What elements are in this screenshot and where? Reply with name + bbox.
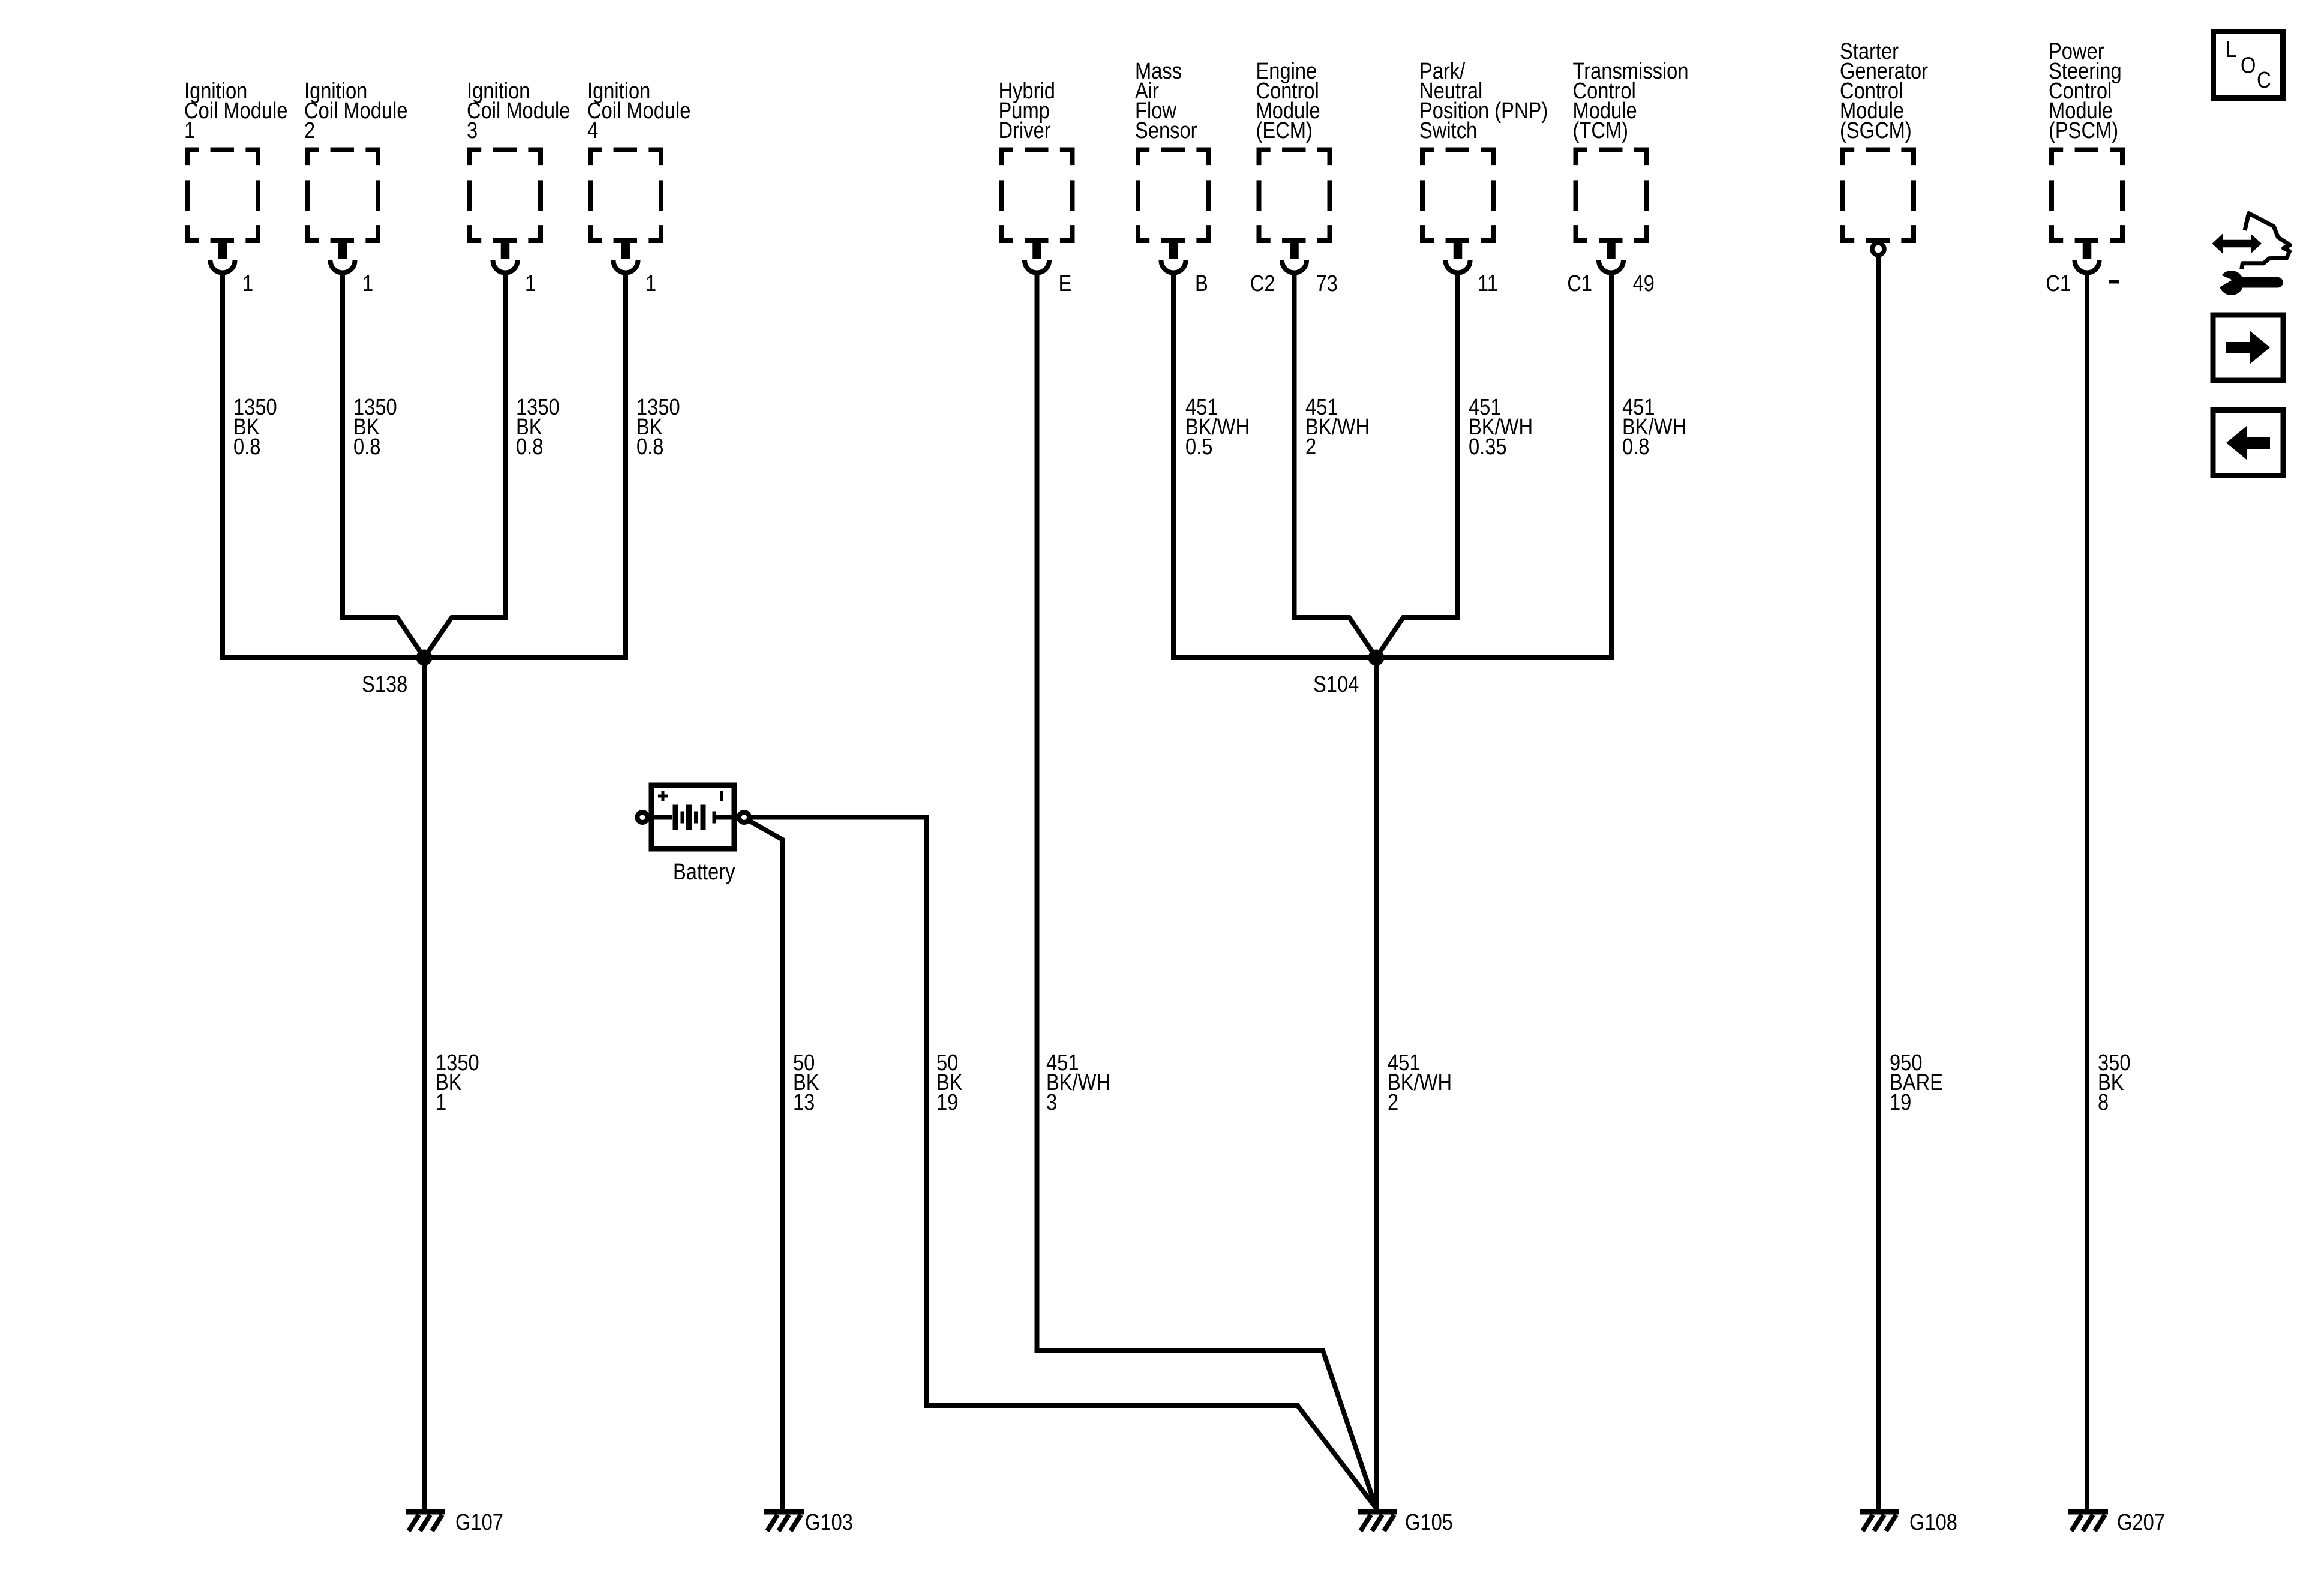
- svg-text:3: 3: [467, 118, 478, 143]
- svg-text:(SGCM): (SGCM): [1840, 118, 1912, 143]
- wire label 451 BK/WH 0.8: [1622, 394, 1686, 460]
- svg-text:C: C: [2257, 67, 2271, 93]
- wire 350 BK 8 from PSCM to G207: [2085, 272, 2089, 1511]
- svg-text:G207: G207: [2117, 1509, 2165, 1535]
- wire label 451 BK/WH 3: [1046, 1050, 1110, 1115]
- svg-text:Coil Module: Coil Module: [184, 98, 287, 124]
- wire 451 BK/WH from MAF to S104: [1173, 272, 1372, 658]
- svg-text:Coil Module: Coil Module: [467, 98, 570, 124]
- connector Park/Neutral Position (PNP) Switch: [1419, 58, 1548, 273]
- svg-text:(PSCM): (PSCM): [2049, 118, 2118, 143]
- svg-text:3: 3: [1046, 1089, 1057, 1115]
- ground G105: [1358, 1509, 1453, 1535]
- connector Hybrid Pump Driver: [999, 78, 1073, 273]
- wire 1350 BK from ICM1 to S138: [223, 272, 420, 658]
- pin 73 of Engine Control Module (ECM): [1316, 271, 1338, 296]
- svg-text:C1: C1: [1567, 271, 1592, 296]
- svg-text:E: E: [1059, 271, 1072, 296]
- svg-text:G107: G107: [455, 1509, 503, 1535]
- svg-text:0.5: 0.5: [1185, 434, 1212, 460]
- pin 11 of Park/Neutral Position (PNP) Switch: [1478, 271, 1498, 296]
- svg-text:C2: C2: [1250, 271, 1275, 296]
- pin label - (PSCM): [2109, 280, 2119, 284]
- pin B of Mass Air Flow Sensor: [1195, 271, 1208, 296]
- svg-text:G105: G105: [1405, 1509, 1453, 1535]
- wire 50 BK 13 from battery negative to G103: [747, 819, 783, 1511]
- legend forward arrow box: [2213, 315, 2283, 380]
- svg-text:19: 19: [936, 1089, 958, 1115]
- wire 1350 BK 1 from S138 to G107: [422, 658, 427, 1511]
- pin 49 of Transmission Control Module (TCM): [1633, 271, 1655, 296]
- battery positive terminal: [638, 812, 648, 822]
- ring terminal SGCM: [1872, 243, 1884, 255]
- svg-text:4: 4: [587, 118, 598, 143]
- svg-text:1: 1: [436, 1089, 446, 1115]
- pin 1 of Ignition Coil Module 3: [525, 271, 536, 296]
- svg-text:13: 13: [793, 1089, 815, 1115]
- svg-text:Switch: Switch: [1419, 118, 1477, 143]
- legend LOC box: [2214, 32, 2283, 98]
- wire label 950 BARE 19: [1890, 1050, 1943, 1115]
- svg-text:Battery: Battery: [673, 859, 735, 885]
- svg-text:2: 2: [1305, 434, 1316, 460]
- wire label 1350 BK 0.8 (ICM1): [233, 394, 277, 460]
- svg-text:B: B: [1195, 271, 1208, 296]
- pin 1 of Ignition Coil Module 4: [645, 271, 656, 296]
- pin label C1 (TCM): [1567, 271, 1592, 296]
- svg-text:O: O: [2241, 52, 2256, 78]
- svg-text:73: 73: [1316, 271, 1338, 296]
- svg-text:0.8: 0.8: [1622, 434, 1649, 460]
- svg-text:S104: S104: [1313, 671, 1359, 697]
- wire 451 BK/WH from TCM to S104: [1380, 272, 1611, 658]
- svg-text:0.8: 0.8: [636, 434, 663, 460]
- wire 1350 BK from ICM3 to S138: [424, 272, 505, 658]
- svg-text:(ECM): (ECM): [1256, 118, 1313, 143]
- connector Transmission Control Module (TCM): [1573, 58, 1689, 273]
- wire label 1350 BK 0.8 (ICM2): [353, 394, 397, 460]
- wire label 50 BK 19: [936, 1050, 963, 1115]
- svg-text:L: L: [2226, 37, 2236, 62]
- wire 451 BK/WH 3 from Hybrid Pump Driver to G105: [1037, 272, 1377, 1508]
- battery: [651, 785, 735, 885]
- wire 1350 BK from ICM2 to S138: [343, 272, 424, 658]
- svg-text:0.8: 0.8: [353, 434, 380, 460]
- connector Ignition Coil Module 4: [587, 78, 690, 273]
- svg-text:(TCM): (TCM): [1573, 118, 1629, 143]
- pin 1 of Ignition Coil Module 1: [242, 271, 253, 296]
- svg-text:G103: G103: [805, 1509, 853, 1535]
- wire label 451 BK/WH 0.5: [1185, 394, 1250, 460]
- pin 1 of Ignition Coil Module 2: [362, 271, 373, 296]
- svg-text:1: 1: [645, 271, 656, 296]
- svg-text:1: 1: [242, 271, 253, 296]
- wire 451 BK/WH 2 from S104 to G105: [1374, 658, 1379, 1511]
- wire label 350 BK 8: [2098, 1050, 2131, 1115]
- connector Starter Generator Control Module (SGCM): [1840, 38, 1928, 241]
- legend power-flow icon (double arrow, outline, wrench): [2212, 214, 2290, 296]
- svg-text:2: 2: [1388, 1089, 1398, 1115]
- svg-text:49: 49: [1633, 271, 1655, 296]
- svg-text:Driver: Driver: [999, 118, 1051, 143]
- svg-text:G108: G108: [1909, 1509, 1957, 1535]
- svg-text:Coil Module: Coil Module: [304, 98, 407, 124]
- svg-text:Sensor: Sensor: [1135, 118, 1197, 143]
- svg-text:C1: C1: [2046, 271, 2071, 296]
- svg-text:2: 2: [304, 118, 315, 143]
- svg-text:11: 11: [1478, 271, 1498, 296]
- splice S138: [362, 650, 433, 697]
- connector Ignition Coil Module 2: [304, 78, 407, 273]
- svg-text:19: 19: [1890, 1089, 1911, 1115]
- pin E of Hybrid Pump Driver: [1059, 271, 1072, 296]
- svg-text:1: 1: [525, 271, 536, 296]
- svg-text:1: 1: [362, 271, 373, 296]
- wire label 451 BK/WH 2 (S104-G105): [1388, 1050, 1452, 1115]
- wire label 451 BK/WH 2: [1305, 394, 1370, 460]
- wire 1350 BK from ICM4 to S138: [428, 272, 626, 658]
- pin label C2 (ECM): [1250, 271, 1275, 296]
- svg-text:1: 1: [184, 118, 195, 143]
- connector Mass Air Flow Sensor: [1135, 58, 1209, 273]
- wire label 1350 BK 0.8 (ICM4): [636, 394, 680, 460]
- svg-text:Coil Module: Coil Module: [587, 98, 690, 124]
- connector Power Steering Control Module (PSCM): [2049, 38, 2122, 273]
- connector Engine Control Module (ECM): [1256, 58, 1330, 273]
- battery negative terminal: [739, 812, 749, 822]
- svg-text:8: 8: [2098, 1089, 2109, 1115]
- connector Ignition Coil Module 3: [467, 78, 570, 273]
- svg-text:0.8: 0.8: [516, 434, 543, 460]
- wire label 50 BK 13: [793, 1050, 819, 1115]
- splice S104: [1313, 650, 1385, 697]
- svg-text:0.8: 0.8: [233, 434, 260, 460]
- connector Ignition Coil Module 1: [184, 78, 287, 273]
- legend backward arrow box: [2213, 410, 2283, 476]
- wire label 1350 BK 1: [436, 1050, 479, 1115]
- ground G103: [764, 1509, 853, 1535]
- ground G107: [406, 1509, 503, 1535]
- wire label 451 BK/WH 0.35: [1469, 394, 1533, 460]
- wire 451 BK/WH from PNP to S104: [1376, 272, 1458, 658]
- wire 950 BARE 19 from SGCM to G108: [1876, 255, 1881, 1511]
- wire label 1350 BK 0.8 (ICM3): [516, 394, 560, 460]
- pin label C1 (PSCM): [2046, 271, 2071, 296]
- wire 50 BK 19 from battery negative to G105: [750, 818, 1376, 1509]
- svg-text:S138: S138: [362, 671, 407, 697]
- wire 451 BK/WH from ECM to S104: [1295, 272, 1377, 658]
- ground G207: [2068, 1509, 2165, 1535]
- svg-text:0.35: 0.35: [1469, 434, 1507, 460]
- ground G108: [1860, 1509, 1957, 1535]
